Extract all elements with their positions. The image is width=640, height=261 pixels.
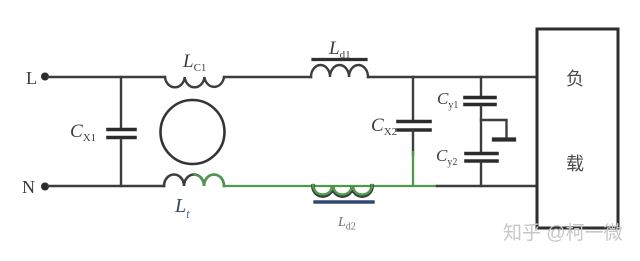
- capacitor C_y2 plates: [466, 152, 497, 156]
- green vertical segment to bottom line: [412, 152, 414, 185]
- load box: [537, 29, 618, 228]
- svg-text:N: N: [22, 177, 35, 197]
- capacitor C_y1 branch from top wire: [480, 77, 482, 97]
- inductor L_d1 (humps above line): [311, 65, 368, 77]
- capacitor C_X1 plates: [108, 128, 135, 132]
- svg-text:Lt: Lt: [174, 195, 190, 221]
- wire (green): bottom coil to load side: [224, 185, 437, 187]
- capacitor C_X2 branch top wire: [412, 77, 414, 120]
- common-mode choke core circle: [161, 100, 225, 164]
- svg-text:知乎 @柯一微: 知乎 @柯一微: [503, 222, 623, 244]
- svg-text:Ld1: Ld1: [328, 38, 351, 61]
- wire: green end to load box: [437, 185, 538, 187]
- inductor L_d2 green overlay: [313, 185, 372, 195]
- capacitor C_X2 branch lower wire: [412, 131, 414, 155]
- ground branch wire: [481, 120, 507, 137]
- capacitor C_y1 plates: [465, 96, 495, 100]
- core bar of L_d1: [313, 58, 366, 61]
- terminal dot N: [41, 183, 49, 191]
- core bar of L_d2 (navy): [315, 200, 373, 203]
- wire C_y2 to bottom line: [480, 163, 482, 187]
- svg-text:L: L: [26, 68, 37, 88]
- capacitor C_X1 branch top wire: [120, 77, 122, 128]
- wire: L_C1 to L_d1: [224, 76, 311, 78]
- inductor L_d2 (cups below green line, dark under-edge): [313, 186, 372, 196]
- ground bar: [494, 137, 514, 141]
- svg-text:负: 负: [566, 69, 584, 89]
- wire: N terminal to bottom coil: [48, 185, 164, 187]
- wire: L terminal to L_C1: [48, 76, 165, 78]
- wire between C_y1 and C_y2: [480, 106, 482, 152]
- svg-text:CX1: CX1: [70, 121, 96, 144]
- inductor L_C1 (cups below line): [165, 77, 224, 87]
- svg-text:CX2: CX2: [371, 115, 397, 138]
- svg-text:载: 载: [566, 154, 584, 174]
- inductor bottom-left (humps above line): [164, 175, 224, 186]
- svg-text:LC1: LC1: [182, 51, 206, 74]
- green trace over right of bottom-left coil: [195, 175, 225, 186]
- wire: L_d1 to load box: [368, 76, 538, 78]
- terminal dot L: [41, 73, 49, 81]
- capacitor C_X2 plates: [398, 120, 430, 124]
- svg-text:Ld2: Ld2: [337, 215, 356, 233]
- svg-text:Cy1: Cy1: [437, 89, 458, 111]
- capacitor C_X1 branch bottom wire: [120, 139, 122, 186]
- svg-text:Cy2: Cy2: [436, 146, 457, 168]
